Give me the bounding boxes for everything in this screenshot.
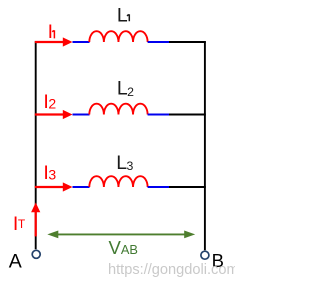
svg-text:https://gongdoli.com: https://gongdoli.com bbox=[108, 262, 235, 278]
inductor L2 (red coil, 4 humps) bbox=[89, 104, 147, 115]
svg-text:A: A bbox=[9, 251, 22, 273]
svg-text:IT: IT bbox=[13, 213, 26, 235]
wire: blue stub right of L3 bbox=[148, 186, 169, 188]
wire: black segment L1 to right bus bbox=[169, 41, 206, 43]
svg-text:L3: L3 bbox=[116, 152, 133, 174]
wire: blue stub left of L3 bbox=[73, 186, 90, 188]
svg-text:VAB: VAB bbox=[109, 237, 138, 258]
svg-text:I2: I2 bbox=[43, 91, 56, 113]
terminal B (open circle) bbox=[201, 251, 209, 259]
wire: blue stub left of L1 bbox=[73, 41, 90, 43]
wire: blue stub right of L2 bbox=[148, 114, 169, 116]
voltage arrow VAB (green, double-headed) bbox=[47, 231, 195, 239]
current arrow I3 (red) bbox=[35, 182, 73, 191]
inductor L3 (red coil, 4 humps) bbox=[89, 176, 147, 187]
svg-text:L2: L2 bbox=[117, 78, 134, 100]
svg-text:L: L bbox=[117, 4, 128, 26]
current arrow I1 (red) bbox=[35, 37, 73, 46]
wire: black segment L3 to right bus bbox=[169, 186, 206, 188]
current arrow IT (red, pointing up) bbox=[31, 203, 40, 237]
wire: blue stub left of L2 bbox=[73, 114, 90, 116]
inductor L1 (red coil, 4 humps) bbox=[89, 31, 147, 42]
wire: black segment L2 to right bus bbox=[169, 114, 206, 116]
terminal A (open circle) bbox=[32, 250, 40, 258]
svg-text:I3: I3 bbox=[43, 162, 56, 184]
current arrow I2 (red) bbox=[35, 110, 73, 119]
wire: blue stub right of L1 bbox=[148, 41, 169, 43]
svg-text:I: I bbox=[48, 21, 53, 43]
wire: left vertical bus bbox=[35, 41, 37, 249]
wire: right vertical bus bbox=[204, 41, 206, 250]
